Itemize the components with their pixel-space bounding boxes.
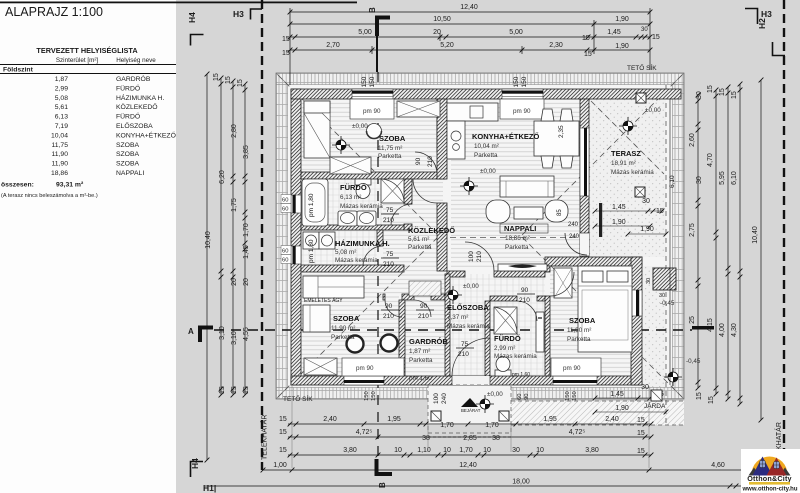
svg-text:Parketta: Parketta [331, 334, 355, 341]
svg-text:15: 15 [282, 36, 290, 43]
svg-text:7,37 m²: 7,37 m² [447, 314, 468, 321]
door nappali [465, 242, 494, 271]
level mark -0,45 járda [664, 368, 682, 386]
svg-text:38: 38 [492, 435, 500, 442]
section mark B bottom [377, 459, 393, 474]
west wall windows [291, 195, 301, 213]
svg-text:12,40: 12,40 [459, 462, 477, 469]
svg-text:6,10: 6,10 [731, 171, 738, 185]
svg-text:60: 60 [282, 258, 288, 264]
svg-text:210: 210 [476, 251, 483, 262]
svg-text:240: 240 [569, 234, 580, 240]
svg-text:3,10: 3,10 [219, 326, 226, 340]
property line left TELEKHATÁR [261, 0, 263, 470]
svg-text:pm 1,80: pm 1,80 [308, 239, 315, 263]
konyha dining table [534, 121, 579, 156]
svg-text:15: 15 [231, 386, 238, 394]
wall below házimunka / szoba BL north [301, 265, 404, 272]
svg-text:EMELETES ÁGY: EMELETES ÁGY [304, 297, 343, 304]
svg-text:15: 15 [225, 76, 232, 84]
svg-text:6,13: 6,13 [55, 114, 68, 121]
szoba BL plant pots [347, 336, 364, 353]
svg-text:210: 210 [519, 297, 530, 304]
svg-text:TELEKHATÁR: TELEKHATÁR [260, 415, 269, 460]
svg-text:FÜRDŐ: FÜRDŐ [340, 183, 367, 192]
svg-text:10,40: 10,40 [205, 231, 212, 249]
svg-text:90: 90 [415, 157, 422, 165]
svg-text:20: 20 [243, 278, 250, 286]
dashed helper line at 2,85 row [428, 436, 511, 438]
svg-text:210: 210 [383, 313, 394, 320]
svg-text:15: 15 [696, 392, 703, 400]
svg-text:HÁZIMUNKA H.: HÁZIMUNKA H. [116, 93, 164, 102]
svg-text:ELŐSZOBA: ELŐSZOBA [447, 303, 489, 312]
svg-text:KONYHA+ÉTKEZŐ: KONYHA+ÉTKEZŐ [116, 130, 176, 139]
svg-text:12,40: 12,40 [460, 4, 478, 11]
svg-text:150: 150 [371, 391, 377, 401]
svg-text:TETŐ SÍK: TETŐ SÍK [283, 394, 313, 403]
svg-text:25: 25 [689, 316, 696, 324]
svg-text:1,87 m²: 1,87 m² [409, 348, 430, 355]
svg-text:5,61: 5,61 [55, 104, 68, 111]
svg-text:FÜRDŐ: FÜRDŐ [116, 112, 140, 121]
BR bedroom north wall [545, 257, 642, 266]
svg-text:15: 15 [637, 430, 645, 437]
svg-text:-0,45: -0,45 [660, 300, 675, 307]
svg-text:1,95: 1,95 [387, 416, 401, 423]
svg-text:H1|: H1| [203, 483, 216, 493]
svg-text:±0,00: ±0,00 [480, 168, 496, 175]
terrace posts [636, 93, 646, 103]
svg-text:B: B [368, 7, 377, 13]
svg-text:15: 15 [279, 416, 287, 423]
svg-text:4,60: 4,60 [711, 462, 725, 469]
svg-text:3,85: 3,85 [243, 145, 250, 159]
roof hip dashed lines [278, 75, 682, 397]
fürdő1 toilet [355, 179, 371, 185]
svg-text:10,04 m²: 10,04 m² [474, 143, 499, 150]
svg-text:KÖZLEKEDŐ: KÖZLEKEDŐ [116, 102, 158, 111]
svg-text:FÜRDŐ: FÜRDŐ [116, 83, 140, 92]
terrace corner column [653, 268, 676, 290]
room list table [0, 46, 176, 199]
terrace bottom dims [610, 384, 664, 412]
svg-text:30: 30 [659, 293, 665, 299]
door házimunka [363, 246, 383, 266]
svg-text:1,70: 1,70 [459, 447, 473, 454]
svg-text:(A terasz nincs beleszámolva a: (A terasz nincs beleszámolva a m²-be.) [1, 193, 98, 199]
svg-text:75: 75 [386, 251, 394, 258]
svg-text:150: 150 [521, 76, 528, 87]
bottom wall window szoba BR [553, 376, 597, 385]
svg-text:18,86 m²: 18,86 m² [505, 235, 530, 242]
svg-text:BEJÁRAT: BEJÁRAT [461, 408, 481, 413]
szoba TL wardrobe [304, 101, 330, 158]
svg-text:Mázas kerámia: Mázas kerámia [335, 257, 378, 264]
svg-text:60: 60 [517, 394, 523, 400]
level mark ±0,00 terasz [619, 117, 637, 135]
svg-text:4,72⁵: 4,72⁵ [569, 429, 586, 436]
fürdő1 / házimunka wall [301, 225, 404, 230]
svg-text:4,15: 4,15 [707, 318, 714, 332]
svg-text:100: 100 [468, 251, 475, 262]
svg-text:H3: H3 [233, 9, 244, 19]
wall below szoba TL [301, 172, 445, 179]
svg-text:30: 30 [642, 198, 650, 205]
svg-text:Helyiség neve: Helyiség neve [116, 57, 156, 64]
level mark ±0,00 nappali [460, 177, 478, 195]
svg-text:pm 90: pm 90 [363, 108, 381, 115]
svg-text:5,08: 5,08 [55, 95, 68, 102]
svg-text:NAPPALI: NAPPALI [116, 170, 144, 177]
svg-text:150: 150 [361, 76, 368, 87]
fürdő2 shower [494, 307, 517, 334]
svg-text:SZOBA: SZOBA [116, 151, 140, 158]
svg-text:30: 30 [641, 27, 648, 33]
gardrób shelf [409, 281, 441, 296]
section A left [200, 328, 213, 343]
svg-text:Földszint: Földszint [3, 67, 34, 74]
svg-text:2,70: 2,70 [326, 42, 340, 49]
fürdő2 north wall [490, 296, 517, 301]
svg-text:Mázas kerámia: Mázas kerámia [340, 203, 383, 210]
házimunka east wall [377, 230, 383, 246]
svg-text:www.otthon-city.hu: www.otthon-city.hu [742, 487, 798, 493]
svg-text:11,90: 11,90 [51, 161, 68, 168]
előszoba / BR west wall [545, 266, 550, 272]
left white panel [0, 0, 176, 493]
svg-text:11,75: 11,75 [51, 142, 68, 149]
svg-text:210: 210 [458, 351, 469, 358]
svg-text:15: 15 [637, 448, 645, 455]
svg-text:TERASZ: TERASZ [611, 149, 641, 158]
fürdő1 bathtub [302, 179, 328, 226]
porch posts [431, 411, 441, 421]
svg-text:Szinterület [m²]: Szinterület [m²] [56, 57, 99, 64]
svg-text:FÜRDŐ: FÜRDŐ [494, 334, 521, 343]
svg-text:3,10: 3,10 [231, 331, 238, 345]
svg-text:10: 10 [394, 447, 402, 454]
svg-text:1,75: 1,75 [231, 198, 238, 212]
svg-text:1,70: 1,70 [440, 422, 454, 429]
nappali sofa [500, 176, 554, 197]
door konyha [413, 179, 437, 203]
svg-text:pm 90: pm 90 [563, 365, 581, 372]
svg-text:H4: H4 [187, 12, 197, 23]
svg-text:pm 1,80: pm 1,80 [308, 193, 315, 217]
svg-text:SZOBA: SZOBA [116, 142, 140, 149]
svg-text:60: 60 [282, 207, 288, 213]
svg-text:2,75: 2,75 [689, 223, 696, 237]
svg-text:30: 30 [696, 91, 703, 99]
small square near BR bottom-right [651, 390, 662, 401]
szoba TL X-box right [397, 101, 440, 117]
terrace valley dashed [591, 101, 664, 174]
door szoba BL [385, 300, 402, 317]
szoba BL desk [303, 305, 330, 332]
svg-text:18,86: 18,86 [51, 170, 68, 177]
JÁRDA sidewalk [511, 401, 684, 425]
svg-text:1,45: 1,45 [612, 204, 626, 211]
szoba TL X-box low [330, 157, 371, 174]
svg-text:-0,45: -0,45 [686, 358, 701, 365]
svg-text:1,95: 1,95 [543, 416, 557, 423]
svg-text:11,90 m²: 11,90 m² [331, 325, 355, 332]
svg-text:5,95: 5,95 [719, 171, 726, 185]
svg-text:KONYHA+ÉTKEZŐ: KONYHA+ÉTKEZŐ [472, 132, 539, 141]
svg-text:H2: H2 [757, 18, 767, 29]
east wall of main body [580, 99, 589, 257]
svg-text:1,90: 1,90 [615, 405, 629, 412]
svg-text:15: 15 [584, 51, 592, 58]
svg-text:2,99 m²: 2,99 m² [494, 345, 515, 352]
svg-text:HÁZIMUNKA H.: HÁZIMUNKA H. [335, 239, 390, 248]
room floor textures [301, 99, 437, 172]
bottom wall window szoba BL [344, 376, 384, 385]
svg-text:pm 90: pm 90 [513, 108, 531, 115]
svg-text:90: 90 [420, 303, 428, 310]
fürdő2 west wall [485, 301, 490, 376]
west wall [291, 89, 301, 385]
svg-text:210: 210 [383, 261, 394, 268]
svg-text:Mázas kerámia: Mázas kerámia [447, 323, 490, 330]
level mark ±0,00 bejárat [476, 395, 494, 413]
svg-text:Parketta: Parketta [409, 357, 433, 364]
entrance arrow BEJÁRAT [461, 398, 478, 407]
svg-text:JÁRDA: JÁRDA [644, 401, 666, 410]
svg-text:±0,00: ±0,00 [352, 123, 368, 130]
small opening labels [308, 76, 676, 378]
svg-text:5,00: 5,00 [509, 29, 523, 36]
svg-text:11,75 m²: 11,75 m² [378, 145, 402, 152]
svg-text:GARDRÓB: GARDRÓB [409, 337, 448, 346]
porch door opening [452, 376, 490, 385]
door szoba TL [415, 152, 437, 174]
svg-text:1,70: 1,70 [243, 223, 250, 237]
szoba BL X-box [304, 358, 337, 375]
svg-text:2,40: 2,40 [605, 416, 619, 423]
bottom wall [291, 376, 642, 385]
top wall window konyha [502, 89, 543, 99]
svg-text:1,87: 1,87 [55, 76, 68, 83]
fürdő2 toilet [495, 370, 511, 376]
svg-text:2,85: 2,85 [463, 435, 477, 442]
svg-text:Mázas kerámia: Mázas kerámia [494, 353, 537, 360]
roof plane band TETŐ SÍK [276, 63, 684, 403]
svg-text:A: A [188, 327, 194, 336]
svg-text:KHATÁR: KHATÁR [774, 422, 783, 450]
svg-text:20: 20 [231, 278, 238, 286]
svg-text:60: 60 [282, 198, 288, 204]
svg-text:6,20: 6,20 [219, 170, 226, 184]
door fürdő1 [391, 204, 412, 225]
svg-text:±0,00: ±0,00 [645, 107, 661, 114]
BR bedroom east wall [631, 257, 642, 385]
svg-text:2,80: 2,80 [231, 124, 238, 138]
level symbols [332, 107, 701, 413]
svg-text:Parketta: Parketta [408, 244, 432, 251]
svg-text:11,90: 11,90 [51, 151, 68, 158]
section line A-A dashed [214, 329, 692, 331]
interior base [288, 85, 672, 387]
label room NAPPALI [500, 224, 548, 233]
svg-text:4,72⁵: 4,72⁵ [356, 429, 373, 436]
svg-text:±0,00: ±0,00 [463, 283, 479, 290]
svg-text:4,30: 4,30 [731, 323, 738, 337]
svg-text:15: 15 [282, 50, 290, 57]
svg-text:1,90: 1,90 [640, 226, 654, 233]
section line B-B dashed [376, 36, 378, 72]
svg-text:5,61 m²: 5,61 m² [408, 236, 429, 243]
level mark ±0,00 előszoba [444, 286, 462, 304]
svg-text:H4: H4 [190, 458, 200, 469]
door gardrób [414, 300, 431, 317]
svg-text:pm 1,60: pm 1,60 [512, 372, 530, 378]
fürdő2 shelf [536, 312, 544, 352]
svg-text:SZOBA: SZOBA [333, 314, 360, 323]
svg-text:SZOBA: SZOBA [116, 161, 140, 168]
svg-text:15: 15 [637, 417, 645, 424]
svg-text:10,04: 10,04 [51, 132, 68, 139]
svg-text:2,40: 2,40 [323, 416, 337, 423]
svg-text:18,00: 18,00 [512, 479, 530, 486]
svg-text:2,30: 2,30 [549, 42, 563, 49]
svg-text:1,90: 1,90 [615, 43, 629, 50]
svg-text:2,60: 2,60 [689, 133, 696, 147]
svg-text:SZOBA: SZOBA [379, 134, 406, 143]
svg-text:150: 150 [565, 391, 571, 401]
section A right dash [692, 326, 714, 330]
nappali east wall windows [580, 128, 589, 196]
svg-text:10,40: 10,40 [752, 226, 759, 244]
svg-text:3,80: 3,80 [343, 447, 357, 454]
svg-text:150: 150 [364, 391, 370, 401]
svg-text:100: 100 [433, 393, 440, 404]
svg-text:75: 75 [461, 341, 469, 348]
svg-text:11,90 m²: 11,90 m² [567, 327, 591, 334]
svg-text:Mázas kerámia: Mázas kerámia [611, 169, 654, 176]
svg-text:1,10: 1,10 [417, 447, 431, 454]
szoba TL east wall [437, 99, 445, 152]
svg-text:5,00: 5,00 [358, 29, 372, 36]
svg-text:30: 30 [512, 447, 520, 454]
svg-text:ELŐSZOBA: ELŐSZOBA [116, 121, 153, 130]
BR east wall window [631, 290, 642, 316]
svg-text:összesen:: összesen: [1, 182, 34, 189]
svg-text:Otthon&City: Otthon&City [747, 474, 792, 483]
svg-text:15: 15 [708, 396, 715, 404]
fürdő1 shower [381, 179, 404, 203]
svg-text:2,99: 2,99 [55, 85, 68, 92]
svg-text:15: 15 [582, 35, 590, 42]
svg-text:15: 15 [707, 85, 714, 93]
svg-text:10,50: 10,50 [433, 16, 451, 23]
svg-text:18,91 m²: 18,91 m² [611, 160, 636, 167]
svg-text:210: 210 [418, 313, 429, 320]
svg-text:15: 15 [237, 79, 244, 87]
szoba BR wardrobe [554, 268, 572, 298]
svg-text:4,00: 4,00 [719, 323, 726, 337]
svg-text:1,70: 1,70 [485, 422, 499, 429]
svg-text:93,31 m²: 93,31 m² [56, 182, 84, 189]
svg-text:60: 60 [282, 249, 288, 255]
svg-text:15: 15 [219, 386, 226, 394]
svg-text:6,13 m²: 6,13 m² [340, 194, 361, 201]
svg-text:15: 15 [656, 208, 664, 215]
svg-text:pm 90: pm 90 [356, 365, 374, 372]
svg-text:30: 30 [641, 384, 649, 391]
gardrób north wall [383, 294, 385, 300]
door szoba BR [550, 272, 574, 296]
szoba TL basin [367, 124, 382, 139]
svg-text:15: 15 [279, 429, 287, 436]
svg-text:30: 30 [696, 176, 703, 184]
svg-text:B: B [378, 482, 387, 488]
svg-text:KÖZLEKEDŐ: KÖZLEKEDŐ [408, 226, 455, 235]
svg-text:4,55: 4,55 [243, 327, 250, 341]
konyha counter [447, 103, 498, 121]
svg-text:pm 1,60: pm 1,60 [409, 375, 432, 382]
svg-text:TETŐ SÍK: TETŐ SÍK [627, 63, 657, 72]
svg-text:5,20: 5,20 [440, 42, 454, 49]
svg-text:15: 15 [279, 447, 287, 454]
nappali south / előszoba north wall [447, 271, 465, 277]
svg-text:240: 240 [568, 222, 579, 228]
svg-text:4,70: 4,70 [707, 153, 714, 167]
svg-text:15: 15 [243, 386, 250, 394]
svg-text:90: 90 [385, 303, 393, 310]
svg-text:20: 20 [433, 29, 441, 36]
svg-text:Parketta: Parketta [567, 336, 591, 343]
svg-text:1,45: 1,45 [607, 29, 621, 36]
svg-text:10: 10 [536, 447, 544, 454]
svg-text:15: 15 [652, 34, 660, 41]
svg-text:ALAPRAJZ 1:100: ALAPRAJZ 1:100 [5, 5, 103, 19]
svg-text:GARDRÓB: GARDRÓB [116, 74, 151, 83]
property line right KHATÁR [783, 0, 785, 493]
svg-text:NAPPALI: NAPPALI [504, 224, 536, 233]
svg-text:150: 150 [513, 76, 520, 87]
svg-text:7,19: 7,19 [55, 123, 68, 130]
door fürdő2 [517, 301, 537, 321]
svg-text:15: 15 [719, 88, 726, 96]
szoba BL east wall [399, 300, 405, 376]
section mark B top [377, 18, 390, 37]
nappali armchairs [486, 200, 510, 223]
nappali TV [498, 264, 547, 271]
top wall [291, 89, 681, 99]
nappali coffee table [514, 207, 543, 219]
svg-text:H3: H3 [761, 9, 772, 19]
svg-text:30: 30 [646, 278, 652, 284]
svg-text:Parketta: Parketta [505, 244, 529, 251]
svg-text:10: 10 [483, 447, 491, 454]
svg-text:210: 210 [383, 217, 394, 224]
házimunka machines [303, 232, 319, 249]
svg-text:90: 90 [521, 287, 529, 294]
svg-text:150: 150 [369, 76, 376, 87]
corridor west wall upper [404, 179, 412, 204]
szoba BL bunk bed [303, 276, 364, 298]
svg-text:75: 75 [386, 207, 394, 214]
door bejárat [452, 338, 490, 376]
svg-text:210: 210 [427, 156, 434, 167]
svg-text:SZOBA: SZOBA [569, 316, 596, 325]
svg-text:1,45: 1,45 [243, 245, 250, 259]
svg-text:10: 10 [443, 447, 451, 454]
svg-text:90: 90 [524, 394, 530, 400]
svg-text:1,00: 1,00 [273, 462, 287, 469]
